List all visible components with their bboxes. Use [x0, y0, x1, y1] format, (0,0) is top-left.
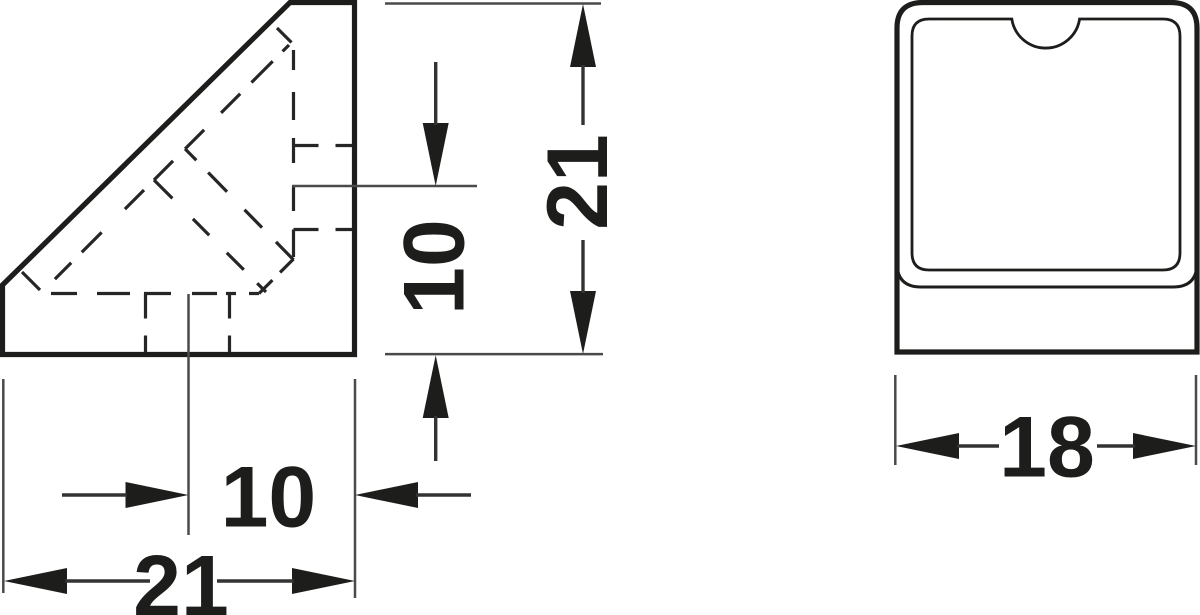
hidden line: bottom flange hole right [228, 294, 231, 353]
extension line left (x=3.3) [2, 379, 5, 593]
svg-text:10: 10 [221, 450, 317, 546]
extension line hole axis horizontal (y=186) [292, 185, 477, 188]
dim 10 vertical: bottom arrow [423, 355, 449, 418]
hidden line: top end face [277, 28, 292, 43]
dim 18 extension line right [1195, 375, 1198, 465]
hidden line: inner vertical wall [292, 50, 295, 257]
dim 18: right arrow [1133, 433, 1196, 459]
svg-text:18: 18 [999, 400, 1095, 496]
dim 21 horizontal: right arrow [292, 568, 355, 594]
hidden line: bottom end face [22, 272, 40, 290]
dim 21 horizontal: left arrow [4, 568, 67, 594]
dim 18 extension line left [894, 375, 897, 465]
dim 10 horizontal: right arrow [355, 482, 418, 508]
dim 10 vertical: top arrow [423, 123, 449, 186]
svg-text:10: 10 [387, 219, 483, 315]
front view bottom edge [895, 349, 1200, 354]
hidden line: inner horizontal wall [51, 292, 259, 295]
hidden line: screw channel upper [185, 149, 293, 260]
hidden line: right flange hole top [294, 144, 353, 147]
extension line right (x=355) [354, 379, 357, 598]
svg-text:21: 21 [530, 134, 626, 230]
dim 21 vertical: bottom arrow [570, 291, 596, 354]
front view inner recess with clip notch [912, 19, 1180, 270]
svg-text:21: 21 [133, 539, 229, 615]
hidden line: screw channel lower [154, 180, 266, 292]
hidden line: inner corner chamfer [259, 259, 294, 294]
extension line hole axis vertical (x=188.5) [187, 294, 190, 535]
hidden line: right flange hole bottom [294, 228, 353, 231]
extension line bottom (y=354) [385, 353, 603, 356]
front view cap rim [897, 263, 1197, 287]
hidden line: bottom flange hole left [144, 294, 147, 353]
dim 21 vertical: top arrow [570, 4, 596, 67]
front view outer cap outline [897, 3, 1197, 355]
dim 10 horizontal: left arrow [126, 482, 189, 508]
side view outline (corner connector) [3, 3, 355, 355]
dim 18: left arrow [896, 433, 959, 459]
extension line top (y=3.5) [385, 2, 601, 5]
hidden line: inner diagonal wall P1 [55, 45, 289, 279]
